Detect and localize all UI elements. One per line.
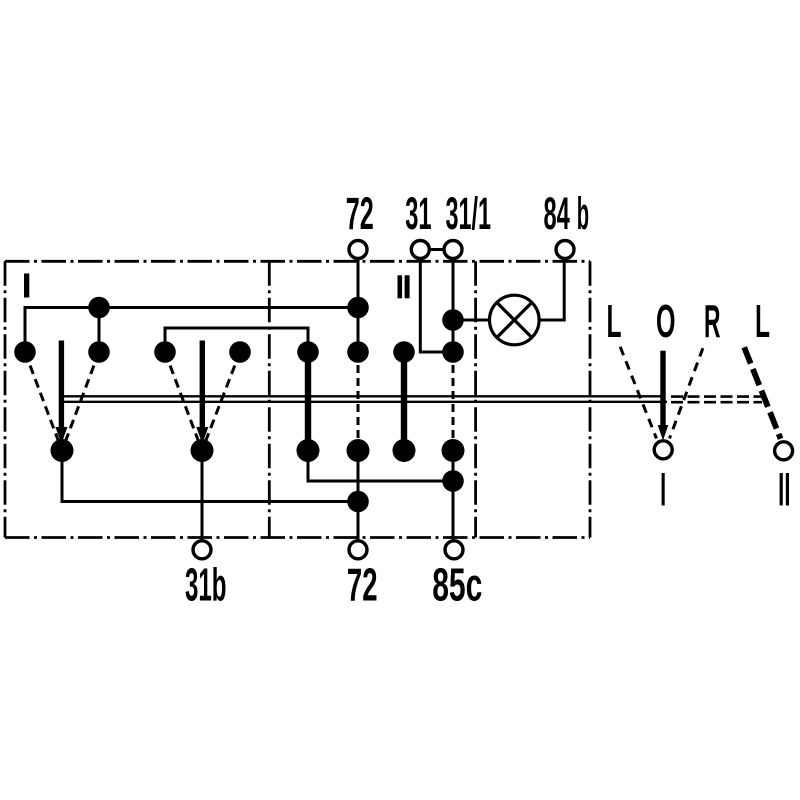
junction dots row B xyxy=(14,341,464,363)
svg-text:85c: 85c xyxy=(432,559,482,611)
dashed contact path II-a xyxy=(357,352,360,451)
terminal circle 72 top xyxy=(349,241,367,259)
label II below lever 2 xyxy=(780,473,789,506)
junction dot 85c link xyxy=(442,470,464,492)
terminal circle 31/1 xyxy=(444,241,462,259)
terminal circle 85c bottom xyxy=(445,541,463,559)
lever I shaft xyxy=(658,351,669,441)
dashed contact path I-right-b xyxy=(202,352,240,451)
indicator lamp xyxy=(490,295,540,345)
svg-text:L: L xyxy=(755,295,770,347)
lever II knob circle xyxy=(775,442,793,460)
label I below lever xyxy=(662,473,665,506)
terminal 72 top column xyxy=(357,259,360,352)
svg-text:31/1: 31/1 xyxy=(446,188,492,239)
terminal circle 31 xyxy=(411,241,429,259)
switch housing dash-dot border xyxy=(5,261,590,537)
lever I dashed path left xyxy=(620,347,656,439)
svg-text:R: R xyxy=(704,295,721,347)
terminal circle 31b bottom xyxy=(193,541,211,559)
lever I dashed path right xyxy=(670,348,703,438)
svg-text:31: 31 xyxy=(405,188,431,239)
svg-text:84: 84 xyxy=(543,188,569,239)
section divider II/lamp xyxy=(474,261,477,537)
terminal circle 84b xyxy=(556,241,574,259)
dashed contact path I-left-b xyxy=(62,352,99,451)
junction dot bottom bus xyxy=(347,491,369,513)
wire: 72 bottom column xyxy=(357,451,360,541)
contact bar section II right xyxy=(401,352,407,451)
slider rail dashed continuation xyxy=(671,397,762,403)
wire: 31 to 31/1 link xyxy=(430,248,443,251)
wire: lamp right lead to 84b xyxy=(539,259,564,320)
lever I knob circle xyxy=(654,441,672,459)
section marker II xyxy=(398,275,410,298)
section marker I xyxy=(24,274,29,298)
wire: 85c link xyxy=(308,451,453,482)
section divider I/II xyxy=(268,261,271,537)
junction dots row C xyxy=(51,439,465,462)
junction dots row A xyxy=(88,297,369,319)
lever II thick dashed shaft xyxy=(744,347,780,439)
wire: upper bus y307 from x25 to terminal 72 column xyxy=(25,308,358,353)
slider rail double line xyxy=(61,396,667,402)
terminal circle 72 bottom xyxy=(349,541,367,559)
wire: 31b column xyxy=(201,451,204,541)
svg-text:31b: 31b xyxy=(185,559,227,611)
dashed contact path I-left-a xyxy=(25,352,62,451)
wire: 85c column xyxy=(452,451,455,541)
svg-text:72: 72 xyxy=(346,188,374,239)
contact bar section I left xyxy=(55,341,67,445)
wire: second bus y328 from x165 to x308 xyxy=(165,328,308,352)
wire: lamp left lead xyxy=(453,319,490,322)
svg-text:O: O xyxy=(656,295,676,347)
contact bar section I right xyxy=(196,341,208,445)
terminal 31 column xyxy=(420,259,453,352)
contact bar section II left xyxy=(305,352,311,451)
svg-text:72: 72 xyxy=(347,559,378,611)
dashed contact path II-b xyxy=(452,352,455,451)
wire: dot1 to bottom bus xyxy=(62,451,358,502)
svg-text:L: L xyxy=(607,295,622,347)
svg-text:b: b xyxy=(577,188,589,239)
terminal 31/1 column xyxy=(452,259,455,352)
junction dot lamp node xyxy=(442,309,464,331)
dashed contact path I-right-a xyxy=(165,352,202,451)
